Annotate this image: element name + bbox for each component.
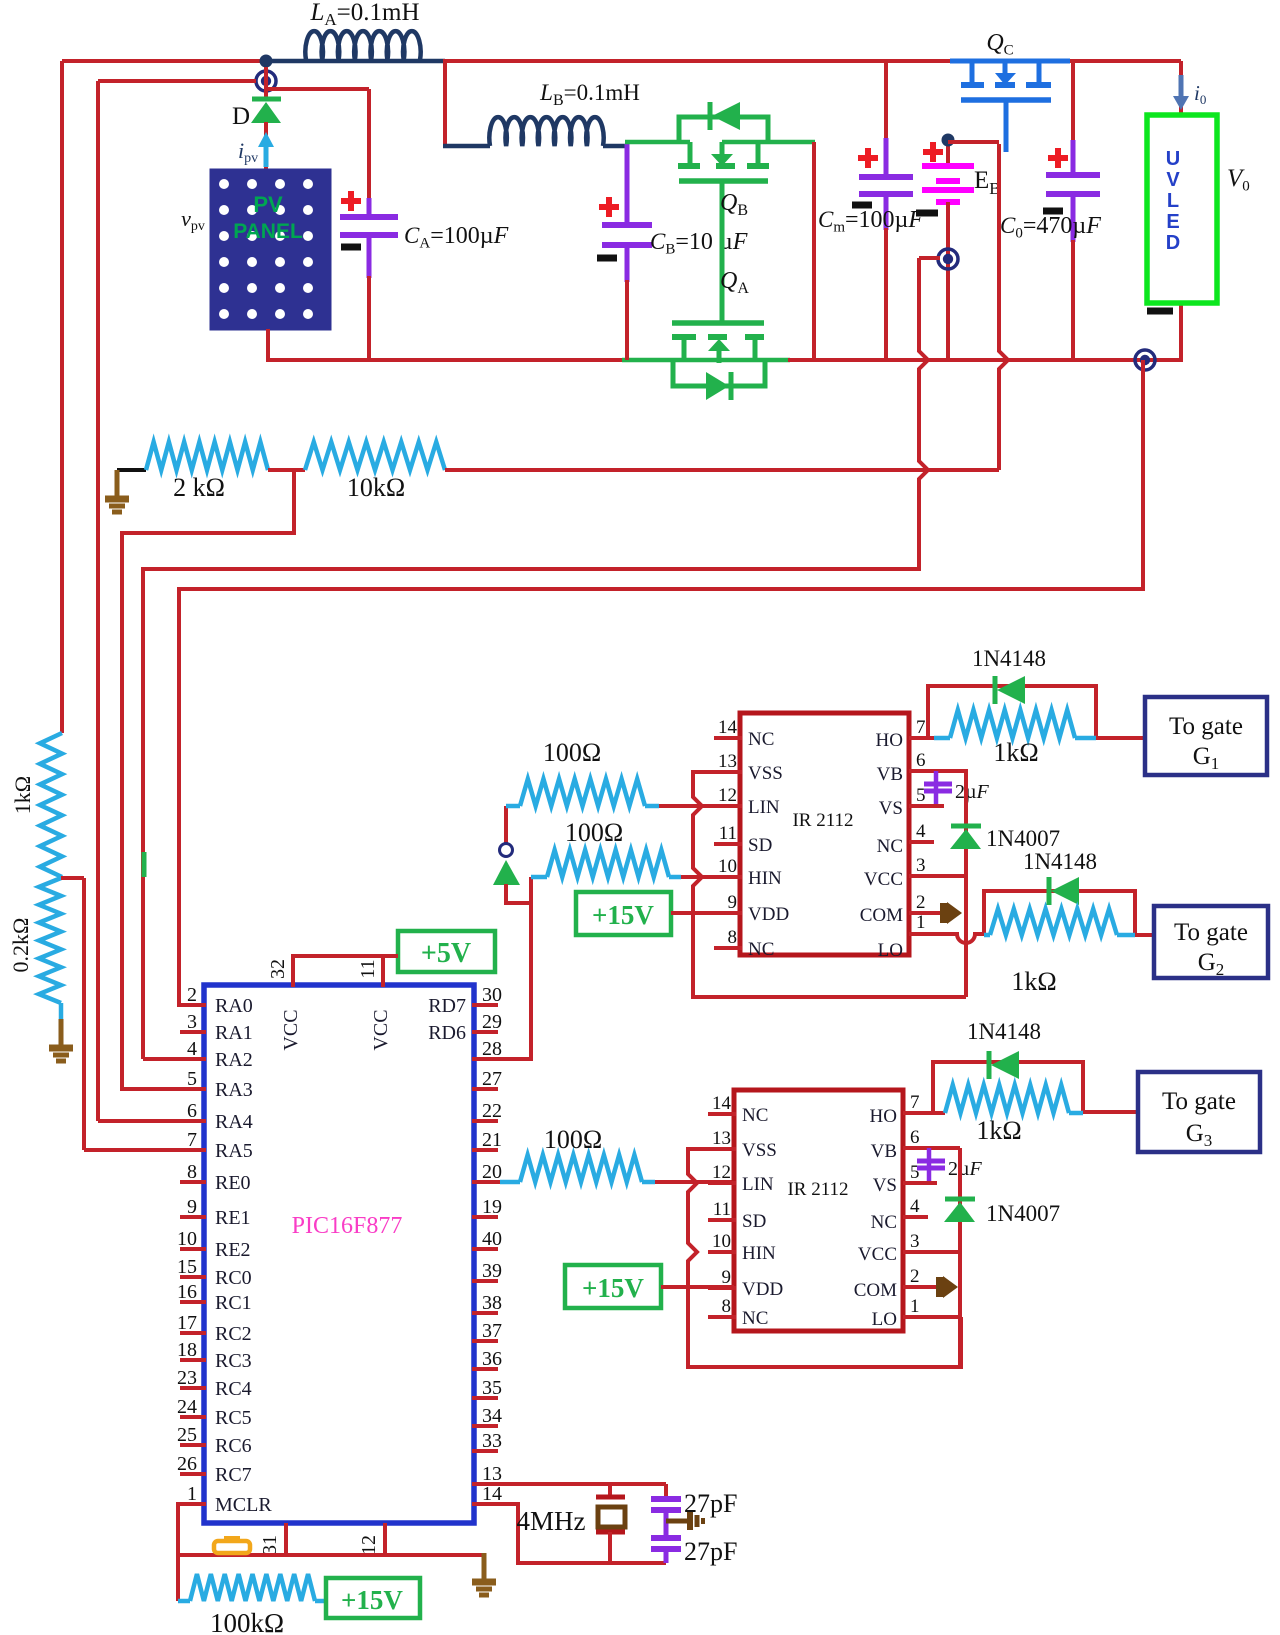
svg-text:40: 40 xyxy=(482,1228,502,1250)
driver1 pin 7 HO xyxy=(876,717,926,751)
svg-text:17: 17 xyxy=(177,1312,197,1334)
driver2 pin 13 VSS xyxy=(708,1128,777,1161)
resistor 100R 1 xyxy=(506,738,659,806)
svg-text:VCC: VCC xyxy=(858,1244,897,1265)
svg-text:27pF: 27pF xyxy=(684,1537,737,1566)
svg-text:IR 2112: IR 2112 xyxy=(792,810,853,831)
svg-text:HO: HO xyxy=(876,730,903,751)
divider resistor 0.2k vertical xyxy=(8,878,61,1003)
svg-text:10kΩ: 10kΩ xyxy=(347,473,405,502)
pin 36 R xyxy=(472,1348,502,1370)
wire COM driver1 xyxy=(909,902,962,924)
svg-text:20: 20 xyxy=(482,1161,502,1183)
resistor 1k G1 xyxy=(934,710,1096,767)
crystal 4MHz xyxy=(517,1484,626,1563)
diode 1N4148 G2 branch xyxy=(984,849,1135,935)
svg-text:10: 10 xyxy=(712,1231,731,1252)
pin 32 VCC xyxy=(267,959,302,1051)
svg-text:RD6: RD6 xyxy=(428,1022,466,1044)
svg-text:26: 26 xyxy=(177,1453,197,1475)
svg-text:VCC: VCC xyxy=(280,1009,302,1050)
driver2 pin 3 VCC xyxy=(858,1231,920,1265)
svg-text:RC1: RC1 xyxy=(215,1292,252,1314)
pin 8 RE0 xyxy=(180,1161,251,1194)
svg-text:VDD: VDD xyxy=(742,1279,783,1300)
wire VCC driver2 xyxy=(903,1250,960,1254)
svg-text:9: 9 xyxy=(722,1267,732,1288)
wire +15V to VDD driver2 xyxy=(661,1285,734,1289)
svg-text:4: 4 xyxy=(916,821,926,842)
svg-text:D: D xyxy=(232,103,250,130)
svg-text:1kΩ: 1kΩ xyxy=(1011,967,1056,996)
svg-text:7: 7 xyxy=(187,1129,197,1151)
label PIC16F877 xyxy=(292,1213,403,1239)
diode input D1 xyxy=(493,806,531,903)
pin 21 R xyxy=(472,1129,502,1151)
pin 37 R xyxy=(472,1320,502,1342)
green dash artifact xyxy=(142,852,147,877)
svg-text:2: 2 xyxy=(916,892,926,913)
svg-text:39: 39 xyxy=(482,1260,502,1282)
ground gnd1 xyxy=(105,470,146,512)
svg-text:RA4: RA4 xyxy=(215,1111,253,1133)
svg-text:16: 16 xyxy=(177,1281,197,1303)
svg-text:33: 33 xyxy=(482,1430,502,1452)
svg-text:IR 2112: IR 2112 xyxy=(787,1179,848,1200)
svg-text:1N4007: 1N4007 xyxy=(986,826,1060,851)
driver2 pin 6 VB xyxy=(871,1127,920,1162)
diode 1N4007 driver2 xyxy=(944,1199,1060,1226)
wire to gate G3 xyxy=(1083,1110,1138,1114)
pin 6 RA4 xyxy=(180,1100,253,1133)
svg-text:4: 4 xyxy=(910,1196,920,1217)
svg-text:8: 8 xyxy=(722,1296,732,1317)
svg-text:PANEL: PANEL xyxy=(233,220,303,243)
svg-text:LO: LO xyxy=(878,940,903,961)
svg-text:34: 34 xyxy=(482,1405,502,1427)
svg-text:3: 3 xyxy=(910,1231,920,1252)
svg-text:1N4148: 1N4148 xyxy=(967,1019,1041,1044)
svg-text:30: 30 xyxy=(482,984,502,1006)
svg-text:RE1: RE1 xyxy=(215,1207,251,1229)
resistor 1k G3 xyxy=(945,1085,1083,1145)
svg-text:RA2: RA2 xyxy=(215,1049,253,1071)
svg-text:VCC: VCC xyxy=(864,869,903,890)
pin 33 R xyxy=(472,1430,502,1452)
resistor 100R 3 xyxy=(472,1125,655,1182)
svg-text:NC: NC xyxy=(748,939,774,960)
svg-text:RA3: RA3 xyxy=(215,1079,253,1101)
svg-text:32: 32 xyxy=(267,959,289,979)
svg-text:MCLR: MCLR xyxy=(215,1494,272,1516)
svg-text:2µF: 2µF xyxy=(955,781,990,803)
svg-text:7: 7 xyxy=(910,1092,920,1113)
svg-text:RA5: RA5 xyxy=(215,1140,253,1162)
IC IR2112 driver1 box xyxy=(740,713,909,955)
svg-text:RA1: RA1 xyxy=(215,1022,253,1044)
svg-text:12: 12 xyxy=(358,1535,380,1555)
label IR2112 driver1 xyxy=(792,810,853,831)
junction dot node top xyxy=(260,55,273,68)
current arrow ipv xyxy=(238,132,274,167)
svg-text:VS: VS xyxy=(879,798,903,819)
svg-text:100kΩ: 100kΩ xyxy=(210,1608,284,1635)
driver1 pin 6 VB xyxy=(877,750,926,785)
driver1 pin 9 VDD xyxy=(714,892,789,925)
wire VSS loop driver2 xyxy=(688,1149,961,1367)
svg-text:V: V xyxy=(1166,169,1180,191)
transistor QA xyxy=(672,323,765,400)
capacitor Cm xyxy=(818,61,923,360)
driver2 pin 10 HIN xyxy=(708,1231,776,1264)
wire diode to panel xyxy=(264,122,268,172)
wire pin6 corner xyxy=(98,1119,204,1123)
pin 38 R xyxy=(472,1292,502,1314)
pin 12 VSS xyxy=(358,1523,385,1557)
ground gnd4 sideways xyxy=(666,1512,703,1530)
svg-text:+15V: +15V xyxy=(582,1273,644,1303)
wire LO driver2 xyxy=(903,1315,960,1319)
pin 24 RC5 xyxy=(177,1396,252,1429)
svg-text:LIN: LIN xyxy=(748,797,780,818)
capacitor CA xyxy=(340,191,509,362)
box to gate G1 xyxy=(1145,697,1267,775)
box to gate G2 xyxy=(1154,906,1268,979)
diode 1N4148 G3 xyxy=(967,1019,1041,1079)
pin 39 R xyxy=(472,1260,502,1282)
svg-text:NC: NC xyxy=(742,1105,768,1126)
svg-text:13: 13 xyxy=(482,1463,502,1485)
wire COM driver2 xyxy=(903,1276,958,1298)
svg-text:U: U xyxy=(1166,148,1180,170)
driver2 pin 14 NC xyxy=(708,1093,768,1126)
svg-text:15: 15 xyxy=(177,1256,197,1278)
driver2 pin 7 HO xyxy=(870,1092,920,1127)
wire to gate G2 xyxy=(1135,933,1154,937)
svg-text:RD7: RD7 xyxy=(428,995,466,1017)
svg-text:D: D xyxy=(1166,232,1180,254)
diode D xyxy=(232,99,281,130)
driver1 pin 5 VS xyxy=(879,785,926,819)
capacitor CB xyxy=(597,144,748,360)
node A ring xyxy=(256,71,276,91)
wire QB right leg xyxy=(812,142,816,360)
svg-text:10: 10 xyxy=(718,856,737,877)
svg-text:2µF: 2µF xyxy=(948,1158,983,1180)
svg-text:RC2: RC2 xyxy=(215,1323,252,1345)
driver1 pin 8 NC xyxy=(714,927,774,960)
svg-text:37: 37 xyxy=(482,1320,502,1342)
svg-text:1kΩ: 1kΩ xyxy=(10,776,35,814)
svg-text:100Ω: 100Ω xyxy=(565,818,623,847)
pin 20 R xyxy=(472,1161,502,1183)
svg-text:9: 9 xyxy=(728,892,738,913)
current arrow i0 xyxy=(1173,75,1206,110)
pin 18 RC3 xyxy=(177,1339,252,1372)
wire VS driver1 xyxy=(909,804,944,808)
pin 13 R xyxy=(472,1463,502,1485)
wire VB to VCC driver1 xyxy=(964,771,968,997)
bottom rail green segment xyxy=(622,358,790,363)
wire PV panel bottom xyxy=(266,329,624,362)
capacitor 2uF driver2 xyxy=(917,1148,983,1183)
svg-text:21: 21 xyxy=(482,1129,502,1151)
svg-text:SD: SD xyxy=(742,1211,766,1232)
svg-text:HIN: HIN xyxy=(742,1243,776,1264)
pin 3 RA1 xyxy=(180,1011,253,1044)
pin 35 R xyxy=(472,1377,502,1399)
driver2 pin 4 NC xyxy=(871,1196,920,1233)
driver2 pin 8 NC xyxy=(708,1296,768,1329)
svg-text:10: 10 xyxy=(177,1228,197,1250)
transistor QC xyxy=(950,61,1070,152)
svg-text:RC7: RC7 xyxy=(215,1464,252,1486)
wire pin14 to crystal xyxy=(472,1504,666,1563)
wire VCC to +5V xyxy=(293,956,398,987)
wire VCC driver1 xyxy=(909,874,966,878)
svg-text:38: 38 xyxy=(482,1292,502,1314)
transistor QB xyxy=(625,102,815,323)
svg-text:HO: HO xyxy=(870,1106,897,1127)
resistor 1k G2 xyxy=(984,909,1135,996)
svg-text:2: 2 xyxy=(187,984,197,1006)
power +15V box 1 xyxy=(576,892,671,935)
svg-text:RC3: RC3 xyxy=(215,1350,252,1372)
wire node feedbacks left xyxy=(98,67,266,1121)
svg-text:6: 6 xyxy=(187,1100,197,1122)
svg-text:RC0: RC0 xyxy=(215,1267,252,1289)
svg-text:LIN: LIN xyxy=(742,1174,774,1195)
svg-text:3: 3 xyxy=(187,1011,197,1033)
svg-text:0.2kΩ: 0.2kΩ xyxy=(8,918,33,973)
svg-text:RE2: RE2 xyxy=(215,1239,251,1261)
svg-text:3: 3 xyxy=(916,855,926,876)
pin 26 RC7 xyxy=(177,1453,252,1486)
svg-text:8: 8 xyxy=(728,927,738,948)
wire VB driver2 xyxy=(903,1146,960,1150)
svg-text:RC5: RC5 xyxy=(215,1407,252,1429)
svg-text:+5V: +5V xyxy=(421,938,471,969)
svg-text:E: E xyxy=(1166,211,1179,233)
svg-text:12: 12 xyxy=(712,1162,731,1183)
driver1 pin 14 NC xyxy=(714,717,774,750)
driver1 pin 1 LO xyxy=(878,912,926,961)
svg-text:7: 7 xyxy=(916,717,926,738)
IC PIC16F877 box xyxy=(204,985,474,1523)
driver1 pin 4 stub xyxy=(909,840,934,844)
svg-text:31: 31 xyxy=(259,1535,281,1555)
wire +15V to VDD driver1 xyxy=(671,911,740,915)
capacitor 2uF driver1 xyxy=(924,771,990,806)
svg-text:NC: NC xyxy=(748,729,774,750)
node ring EB bottom xyxy=(919,249,958,360)
wire pin5 corner xyxy=(122,1087,204,1091)
svg-text:22: 22 xyxy=(482,1100,502,1122)
wire LO driver1 xyxy=(909,934,984,943)
svg-text:18: 18 xyxy=(177,1339,197,1361)
driver1 pin 13 VSS xyxy=(714,751,783,784)
divider resistor 1k vertical xyxy=(10,733,62,877)
ground gnd3 vss xyxy=(472,1553,496,1595)
wire VB driver1 xyxy=(909,769,968,773)
svg-text:C0=470µF: C0=470µF xyxy=(1000,213,1101,241)
svg-text:1kΩ: 1kΩ xyxy=(993,738,1038,767)
svg-text:100Ω: 100Ω xyxy=(543,738,601,767)
pin 9 RE1 xyxy=(180,1196,251,1229)
driver1 pin 4 NC xyxy=(877,821,926,857)
driver1 pin 2 COM xyxy=(860,892,926,926)
load UVLED box xyxy=(1147,115,1217,303)
svg-text:27: 27 xyxy=(482,1068,502,1090)
label vpv xyxy=(181,206,205,234)
pin 11 VCC xyxy=(357,959,392,1050)
wire pin4 corner xyxy=(143,1057,204,1061)
pin 2 RA0 xyxy=(180,984,253,1017)
svg-text:VB: VB xyxy=(871,1141,897,1162)
wire MCLR reset xyxy=(178,1504,484,1555)
inductor LA xyxy=(267,0,445,61)
svg-text:NC: NC xyxy=(742,1308,768,1329)
svg-text:RA0: RA0 xyxy=(215,995,253,1017)
svg-text:NC: NC xyxy=(877,836,903,857)
svg-text:5: 5 xyxy=(187,1068,197,1090)
pin 19 R xyxy=(472,1196,502,1218)
capacitor C0 xyxy=(1000,61,1101,360)
svg-text:13: 13 xyxy=(718,751,737,772)
bottom rail right xyxy=(788,303,1181,362)
svg-text:14: 14 xyxy=(712,1093,732,1114)
pin 31 VSS xyxy=(259,1523,286,1557)
pin 29 RD6 xyxy=(428,1011,502,1044)
svg-text:29: 29 xyxy=(482,1011,502,1033)
svg-text:1N4148: 1N4148 xyxy=(1023,849,1097,874)
svg-text:VDD: VDD xyxy=(748,904,789,925)
wire VSS loop driver1 xyxy=(693,772,966,997)
pin 34 R xyxy=(472,1405,502,1427)
resistor 10k xyxy=(305,442,445,502)
pin 25 RC6 xyxy=(177,1424,252,1457)
wire LA to LB xyxy=(443,59,490,148)
svg-text:13: 13 xyxy=(712,1128,731,1149)
reset button xyxy=(214,1538,250,1553)
svg-text:9: 9 xyxy=(187,1196,197,1218)
driver2 pin 4 stub xyxy=(903,1215,928,1219)
pin 27 R xyxy=(472,1068,502,1090)
wire divider tap to RA5 xyxy=(61,878,204,1150)
svg-text:To gate: To gate xyxy=(1174,919,1248,946)
svg-text:To gate: To gate xyxy=(1169,713,1243,740)
svg-text:1: 1 xyxy=(916,912,926,933)
svg-text:2: 2 xyxy=(910,1266,920,1287)
wire pin28 to driver1 xyxy=(472,877,531,1059)
svg-text:8: 8 xyxy=(187,1161,197,1183)
pin 16 RC1 xyxy=(177,1281,252,1314)
wire VB to loop driver2 xyxy=(958,1148,962,1367)
pin 5 RA3 xyxy=(180,1068,253,1101)
svg-text:100Ω: 100Ω xyxy=(544,1125,602,1154)
svg-text:+15V: +15V xyxy=(341,1585,403,1615)
node ring output bottom xyxy=(1135,350,1155,370)
svg-text:CB=10 µF: CB=10 µF xyxy=(650,229,748,257)
svg-text:VSS: VSS xyxy=(742,1140,777,1161)
power +15V box 2 xyxy=(565,1265,661,1308)
svg-text:HIN: HIN xyxy=(748,868,782,889)
wire top rail xyxy=(62,61,1181,733)
svg-text:L: L xyxy=(1167,190,1179,212)
svg-text:RC6: RC6 xyxy=(215,1435,252,1457)
pin 1 MCLR xyxy=(180,1483,272,1516)
junction dot EB top xyxy=(942,134,1000,147)
svg-text:VSS: VSS xyxy=(748,763,783,784)
wire HO branch driver1 xyxy=(909,686,1096,738)
wire 100R1 to LIN xyxy=(659,804,740,808)
driver2 pin 12 LIN xyxy=(708,1162,774,1195)
label IR2112 driver2 xyxy=(787,1179,848,1200)
driver1 pin 10 HIN xyxy=(714,856,782,889)
resistor 100R 2 xyxy=(531,818,681,877)
svg-text:To gate: To gate xyxy=(1162,1088,1236,1115)
wire to CA top xyxy=(266,89,369,200)
pin 7 RA5 xyxy=(180,1129,253,1162)
wire EB sense down xyxy=(143,258,928,1059)
svg-text:COM: COM xyxy=(860,905,903,926)
pin 30 RD7 xyxy=(428,984,502,1017)
power +5V box xyxy=(398,931,495,972)
svg-text:14: 14 xyxy=(482,1483,502,1505)
resistor 100k xyxy=(178,1555,326,1635)
power +15V box 3 xyxy=(326,1578,420,1618)
svg-text:11: 11 xyxy=(719,823,737,844)
svg-text:6: 6 xyxy=(910,1127,920,1148)
svg-text:5: 5 xyxy=(910,1162,920,1183)
driver2 pin 2 COM xyxy=(854,1266,920,1301)
svg-text:11: 11 xyxy=(357,959,379,978)
svg-text:VS: VS xyxy=(873,1175,897,1196)
box to gate G3 xyxy=(1138,1072,1260,1152)
pin 14 R xyxy=(472,1483,502,1505)
driver2 pin 5 VS xyxy=(873,1162,920,1196)
svg-text:36: 36 xyxy=(482,1348,502,1370)
svg-text:35: 35 xyxy=(482,1377,502,1399)
svg-text:4MHz: 4MHz xyxy=(517,1506,586,1536)
ground gnd2 divider xyxy=(49,1003,73,1061)
wire HO branch driver2 xyxy=(903,1062,1083,1113)
wire pin13 to crystal xyxy=(472,1482,666,1486)
battery EB xyxy=(916,142,974,250)
svg-text:19: 19 xyxy=(482,1196,502,1218)
svg-text:1: 1 xyxy=(910,1296,920,1317)
label V0 xyxy=(1227,165,1250,194)
svg-text:+15V: +15V xyxy=(592,900,654,930)
wire output sense down xyxy=(179,360,1143,1005)
svg-text:4: 4 xyxy=(187,1038,197,1060)
driver1 pin 3 VCC xyxy=(864,855,926,890)
svg-text:28: 28 xyxy=(482,1038,502,1060)
driver2 pin 1 LO xyxy=(872,1296,920,1330)
wire 10k to QC node xyxy=(445,144,1008,470)
PV panel xyxy=(211,170,330,329)
diode 1N4007 driver1 xyxy=(950,826,1060,851)
driver2 pin 9 VDD xyxy=(708,1267,783,1300)
label QB xyxy=(720,190,748,219)
svg-text:PIC16F877: PIC16F877 xyxy=(292,1213,403,1239)
svg-text:25: 25 xyxy=(177,1424,197,1446)
svg-text:RE0: RE0 xyxy=(215,1172,251,1194)
svg-text:SD: SD xyxy=(748,835,772,856)
pin 22 R xyxy=(472,1100,502,1122)
label QC xyxy=(986,30,1013,58)
pin 15 RC0 xyxy=(177,1256,252,1289)
